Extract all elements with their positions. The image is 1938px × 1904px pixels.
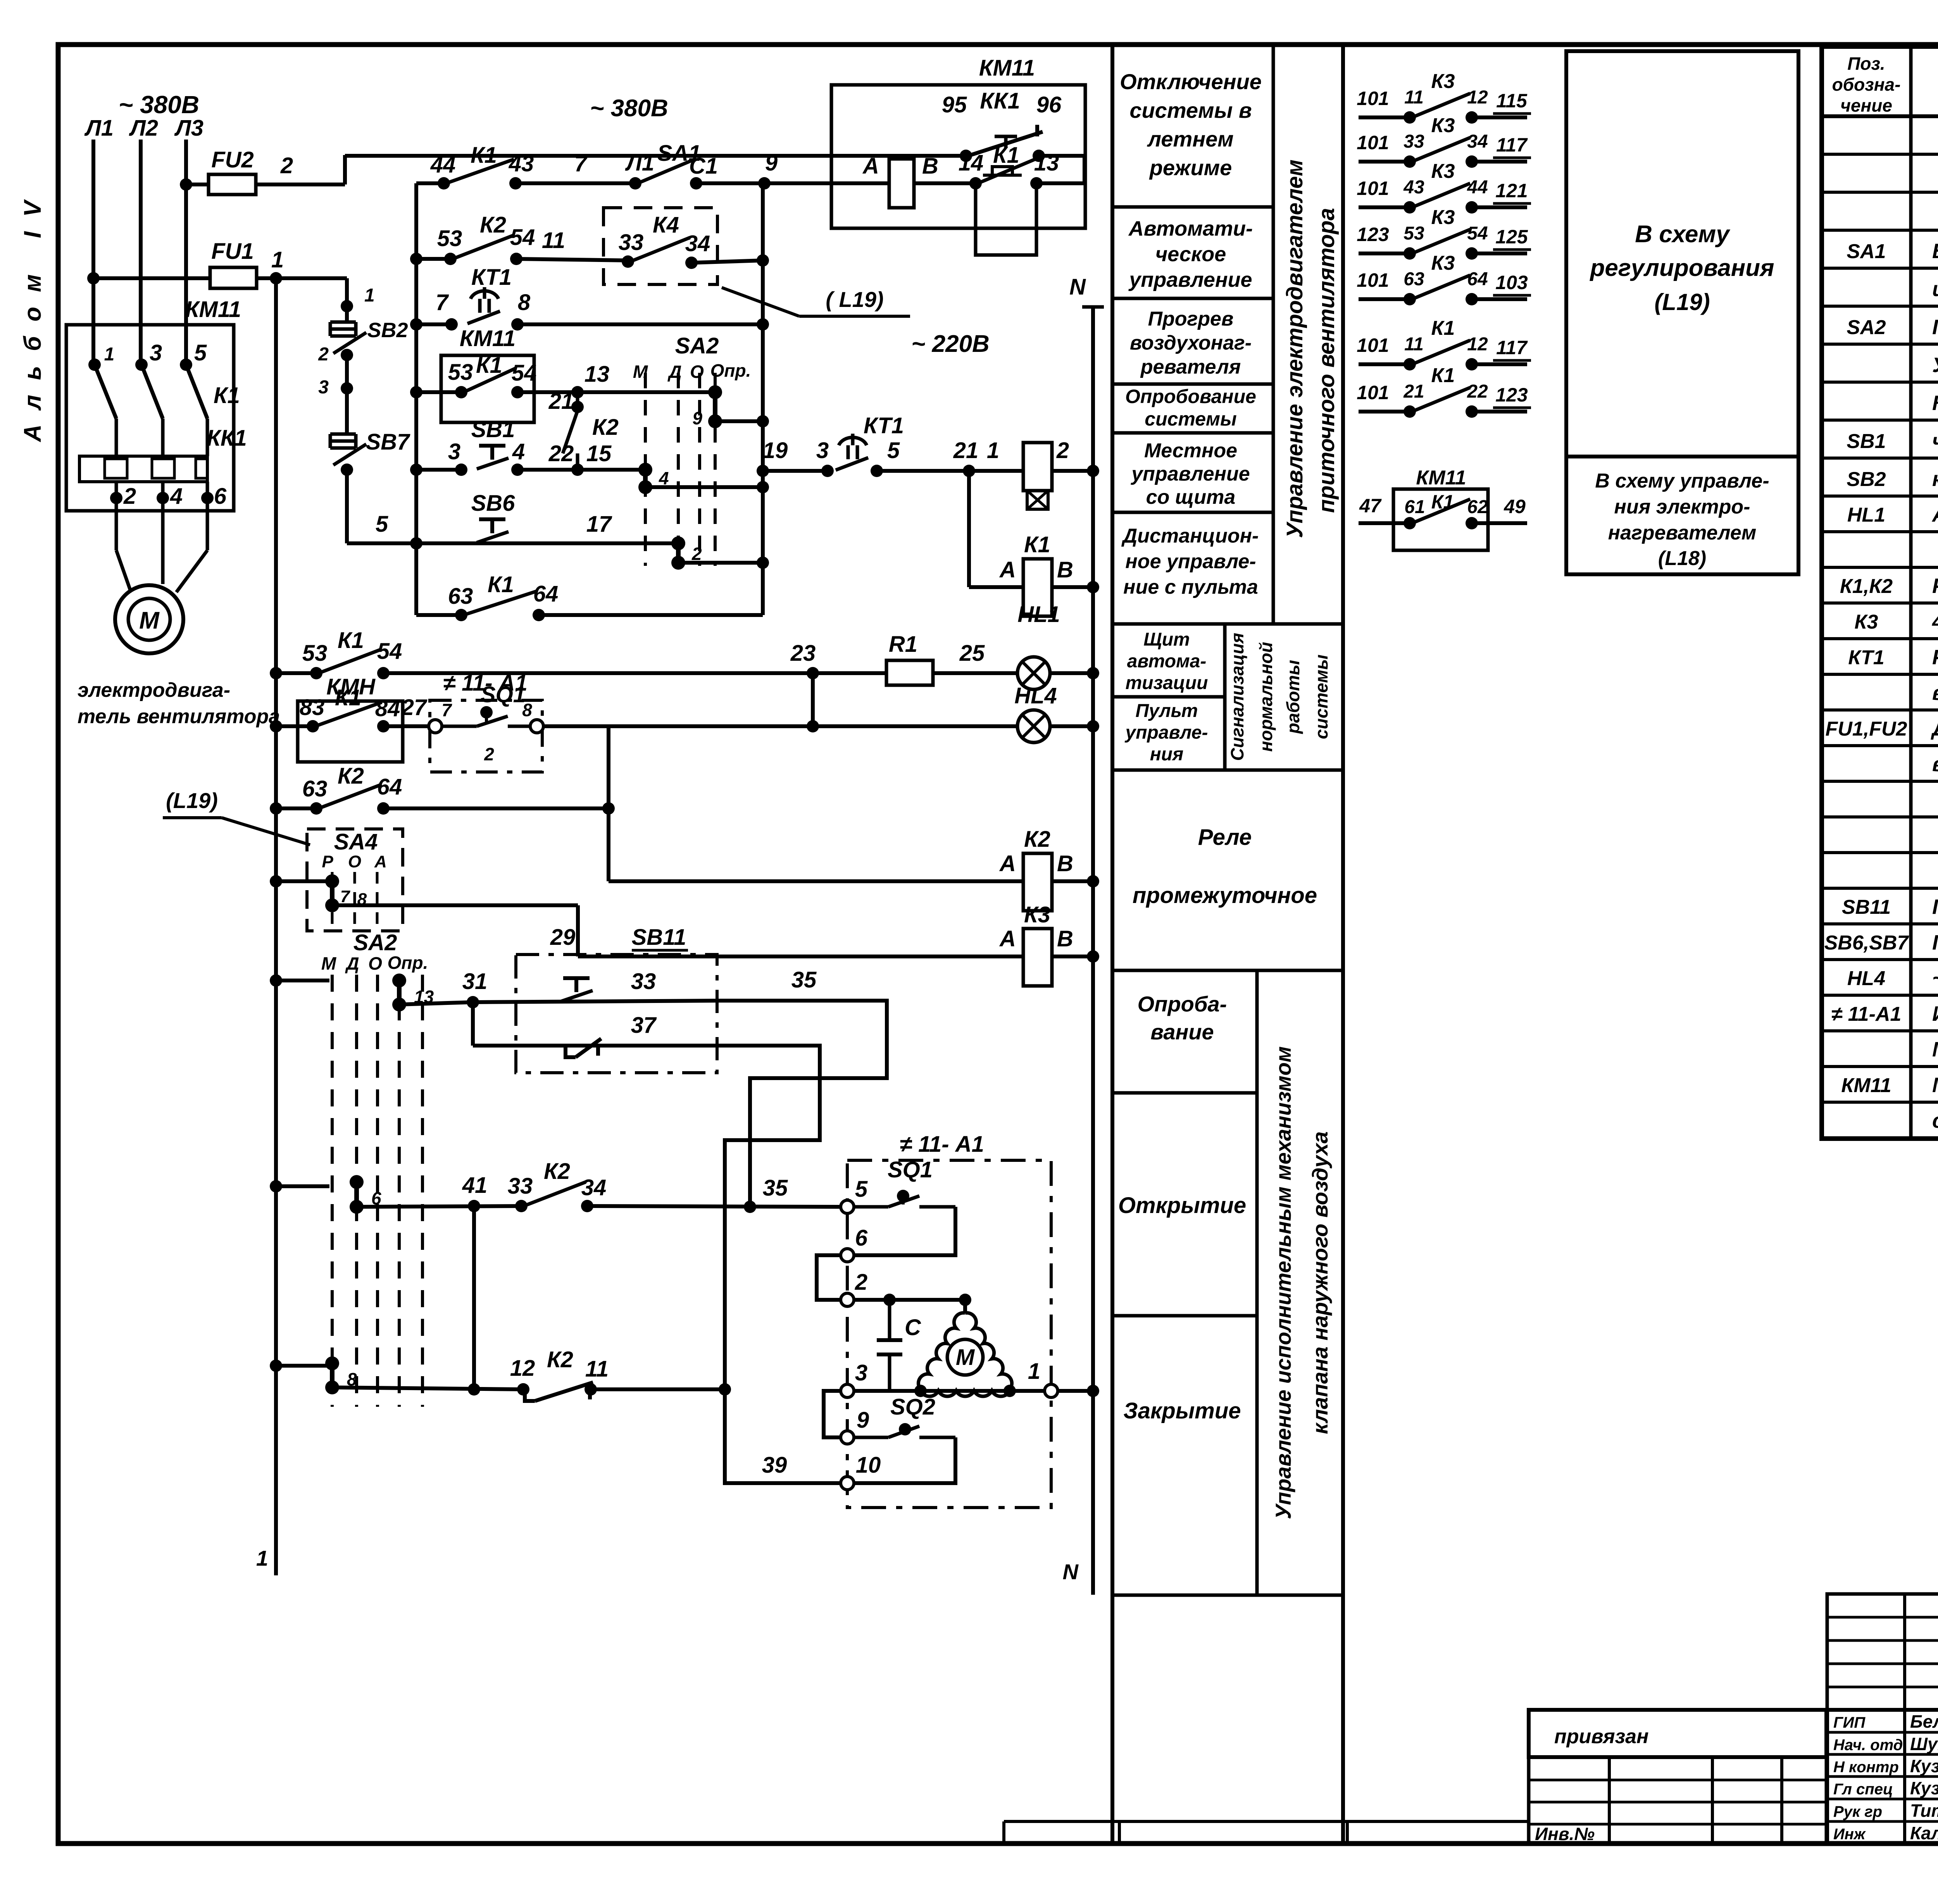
contact K2 33-34 low (515, 1200, 528, 1212)
svg-text:К2: К2 (338, 763, 364, 789)
stub bus-3522 (276, 1364, 329, 1368)
SQ1 pin (480, 706, 493, 719)
SQ2 contact (854, 1436, 888, 1439)
table row line 18 (1822, 815, 1938, 818)
svg-text:101: 101 (1357, 382, 1389, 403)
table row line 6 (1822, 381, 1938, 384)
svg-text:96: 96 (1036, 92, 1062, 117)
row HL1 lead (276, 671, 316, 675)
svg-text:Д: Д (345, 953, 359, 974)
node N 1735 (1087, 667, 1099, 679)
node 21 mid (963, 465, 975, 477)
thermal KK1 block (79, 456, 207, 482)
svg-text:управление: управление (1130, 463, 1250, 485)
svg-text:6: 6 (214, 484, 227, 509)
svg-text:SВ2: SВ2 (1847, 468, 1886, 491)
V1 node row663 (410, 253, 422, 265)
cell line 4116 (1112, 1594, 1343, 1597)
lamp HL4 (1017, 710, 1050, 743)
cell line 1117 (1112, 431, 1273, 435)
table row line 22 (1822, 958, 1938, 961)
node bus 2084 (270, 802, 282, 815)
svg-text:воздухонаг-: воздухонаг- (1130, 332, 1252, 354)
svg-text:управление: управление (1128, 268, 1252, 291)
wire K3coil-N (1052, 955, 1093, 958)
svg-text:О: О (348, 852, 361, 871)
svg-text:1: 1 (104, 344, 115, 365)
svg-text:вставка ВП25-1 на 2А: вставка ВП25-1 на 2А (1932, 753, 1938, 776)
row K2: lead (416, 257, 450, 261)
svg-text:33: 33 (1403, 131, 1424, 152)
svg-text:тизации: тизации (1126, 673, 1208, 693)
svg-text:В схему управле-: В схему управле- (1595, 470, 1769, 492)
svg-text:SВ11: SВ11 (1842, 896, 1891, 918)
bus V1 (414, 183, 418, 615)
wire 31-button (473, 1002, 561, 1003)
svg-text:С1: С1 (689, 153, 718, 179)
button SB6 (479, 517, 505, 521)
svg-text:43: 43 (509, 151, 534, 176)
svg-text:Управление исполнительным ме: Управление исполнительным механизмом (1271, 1046, 1295, 1519)
fuse FU1 (210, 267, 257, 288)
svg-text:К3: К3 (1431, 160, 1455, 183)
inv grid v1 (1608, 1757, 1611, 1844)
wire to K1coil (969, 585, 1023, 589)
cell line 3395 (1112, 1314, 1257, 1318)
node 23 (807, 667, 819, 679)
svg-text:КК1: КК1 (207, 426, 247, 451)
table row line 1 (1822, 191, 1938, 194)
row 5 wire (347, 541, 416, 545)
svg-text:10: 10 (856, 1453, 881, 1478)
motor leads (115, 482, 118, 550)
contact K3 11-12 row (1359, 115, 1410, 119)
svg-text:125: 125 (1495, 226, 1528, 248)
svg-text:54: 54 (512, 360, 537, 386)
svg-text:управле-: управле- (1125, 722, 1208, 743)
svg-text:HL4: HL4 (1014, 683, 1057, 708)
svg-text:21: 21 (548, 389, 574, 414)
svg-text:А: А (999, 926, 1016, 951)
route 39 (717, 1046, 841, 1483)
svg-text:53: 53 (1403, 223, 1424, 244)
svg-text:34: 34 (581, 1175, 607, 1200)
node N 1512 (1087, 581, 1099, 593)
svg-text:54: 54 (510, 225, 535, 250)
node bus 2272 (270, 875, 282, 887)
svg-text:режиме: режиме (1149, 155, 1232, 180)
row KT1coil from V2 (763, 469, 828, 473)
svg-text:35: 35 (791, 967, 817, 992)
svg-text:2: 2 (484, 744, 494, 764)
svg-text:5: 5 (887, 438, 900, 463)
motor top riser (959, 1294, 971, 1306)
svg-text:1: 1 (364, 285, 375, 306)
contact K2 12-11 nc (517, 1383, 529, 1396)
privyazan box (1529, 1710, 1826, 1757)
svg-text:клапана наружного воздуха: клапана наружного воздуха (1308, 1131, 1332, 1434)
svg-text:Калмыков: Калмыков (1910, 1823, 1938, 1843)
svg-text:В: В (922, 153, 938, 179)
row 2586 wire (473, 1001, 717, 1002)
svg-text:SQ1: SQ1 (888, 1157, 933, 1182)
svg-text:8: 8 (518, 290, 531, 315)
wire 34-V2 (691, 260, 763, 263)
table row line 7 (1822, 419, 1938, 422)
contact K3 43-44 row (1359, 205, 1410, 209)
wire KT1coil-N (1052, 469, 1093, 473)
svg-text:Сигнализация: Сигнализация (1227, 633, 1247, 761)
svg-text:системы: системы (1145, 408, 1236, 430)
V2 node 1085 (757, 415, 769, 427)
svg-text:15: 15 (586, 441, 612, 466)
SA2 contact pair D (671, 536, 685, 550)
svg-text:3: 3 (448, 439, 460, 464)
svg-text:SQ2: SQ2 (890, 1394, 935, 1420)
inv grid h1 (1529, 1779, 1826, 1782)
svg-text:37: 37 (631, 1013, 657, 1038)
V2 node 1255 (757, 481, 769, 493)
branch 21 down (967, 471, 971, 587)
function column right edge (1341, 45, 1345, 1844)
wire 3-SB7 (345, 388, 349, 434)
ext step 3-9 (824, 1391, 841, 1437)
terminal 7 sq1 (429, 720, 442, 733)
node N 1213 (1087, 465, 1099, 477)
button SB1 (479, 444, 505, 448)
node 1223-3583 (468, 1383, 480, 1396)
svg-text:В: В (1057, 926, 1073, 951)
svg-text:Инж: Инж (1833, 1826, 1866, 1843)
svg-text:К1: К1 (1431, 317, 1455, 339)
SQ1 contact (442, 725, 477, 728)
svg-text:101: 101 (1357, 334, 1389, 356)
svg-text:Выключатель пакетный ПВ1-16: Выключатель пакетный ПВ1-16 У300Б, (1932, 240, 1938, 263)
V1 node row1210 (410, 464, 422, 476)
terminal 10 (841, 1477, 854, 1490)
svg-text:31: 31 (462, 969, 488, 994)
svg-text:2: 2 (318, 344, 329, 365)
wire FU1 feed (93, 276, 276, 280)
wire L2 (139, 140, 143, 365)
pair D 6 (350, 1175, 364, 1189)
inv grid h3 (1529, 1823, 1826, 1826)
node 31 (467, 996, 479, 1008)
table row line 2 (1822, 229, 1938, 232)
terminal 5 (841, 1200, 854, 1213)
svg-text:со щита: со щита (1146, 486, 1236, 508)
svg-text:N: N (1069, 274, 1086, 300)
SQ1 pin act (897, 1190, 909, 1202)
SQ2 right loop (854, 1437, 955, 1483)
svg-text:~220В: ~220В (1932, 967, 1938, 990)
svg-text:5: 5 (194, 340, 207, 365)
table row line 8 (1822, 457, 1938, 460)
svg-text:64: 64 (377, 774, 402, 800)
table row line 27 (1822, 1136, 1938, 1139)
svg-text:Автомати-: Автомати- (1128, 217, 1253, 240)
V2 node 835 (757, 318, 769, 331)
svg-text:≠ 11-А1: ≠ 11-А1 (1831, 1003, 1902, 1025)
svg-text:ние с пульта: ние с пульта (1123, 576, 1258, 598)
svg-text:(L18): (L18) (1658, 547, 1706, 570)
upper grid line 1 (1827, 1616, 1938, 1619)
svg-text:123: 123 (1357, 224, 1389, 245)
contact K1 53-54 aux (455, 386, 467, 398)
svg-text:К2: К2 (547, 1347, 573, 1372)
svg-text:8: 8 (522, 700, 532, 720)
bus N vertical (1091, 306, 1095, 1595)
contact K1 11-12 row (1359, 362, 1410, 366)
svg-text:ческое: ческое (1155, 243, 1226, 266)
svg-text:SА1: SА1 (1847, 240, 1886, 263)
svg-text:Кузнецов: Кузнецов (1910, 1756, 1938, 1776)
table row line 19 (1822, 851, 1938, 854)
upper grid line 4 (1827, 1686, 1938, 1689)
contact K2 53-54 (444, 253, 457, 265)
svg-text:КК1: КК1 (980, 88, 1020, 114)
stub D-V2 (678, 561, 763, 565)
sig col box (1827, 1710, 1938, 1844)
box KM11 62 (1393, 489, 1488, 550)
svg-text:5: 5 (855, 1177, 868, 1202)
row 2084 lead (276, 806, 316, 810)
svg-text:нормальной: нормальной (1256, 642, 1276, 751)
KK1 break contact 95-96 (960, 150, 972, 162)
svg-text:33: 33 (619, 230, 644, 255)
svg-text:М: М (139, 607, 160, 634)
KM11 pole 2 (141, 365, 163, 419)
svg-text:R1: R1 (889, 632, 917, 657)
sig row line 2 (1827, 1753, 1938, 1756)
SQ1 right loop (854, 1207, 955, 1255)
svg-text:SВ1: SВ1 (471, 417, 515, 442)
row SB1 lead (416, 468, 461, 472)
V2 node 1213 (757, 465, 769, 477)
upper grid line 3 (1827, 1663, 1938, 1665)
svg-text:1: 1 (987, 438, 999, 463)
wire L1 (91, 140, 95, 365)
svg-text:ГИП: ГИП (1833, 1714, 1866, 1731)
contact K1 21-22 row (1359, 410, 1410, 414)
svg-text:КМ11: КМ11 (1416, 467, 1466, 489)
cell line 770 (1112, 297, 1273, 300)
motor M inner (128, 598, 170, 640)
node 9 (758, 177, 771, 190)
svg-text:64: 64 (533, 581, 559, 607)
table row line 21 (1822, 922, 1938, 925)
bus 1 vertical (274, 278, 278, 1575)
contact K1 63-64 (455, 609, 467, 621)
svg-text:7: 7 (574, 151, 588, 176)
cell line 991 (1112, 383, 1273, 386)
svg-text:35: 35 (763, 1175, 788, 1201)
svg-text:54: 54 (377, 639, 402, 664)
branch to SB2 (276, 276, 347, 280)
SA4 dashed P (331, 872, 334, 927)
V1 node row1010 (410, 386, 422, 398)
svg-text:≠ 11- А1: ≠ 11- А1 (900, 1132, 984, 1157)
row 2698 wire (473, 1044, 717, 1048)
svg-text:1: 1 (271, 247, 284, 272)
svg-text:Нач. отд: Нач. отд (1833, 1737, 1903, 1754)
node below SB7 (341, 464, 353, 476)
table row line 14 (1822, 673, 1938, 676)
svg-text:SВ6,SВ7: SВ6,SВ7 (1824, 932, 1909, 954)
svg-text:7: 7 (340, 887, 351, 906)
V2 node 1450 (757, 557, 769, 569)
svg-text:летнем: летнем (1147, 127, 1233, 151)
svg-text:Переключатель универсальный: Переключатель универсальный (1932, 315, 1938, 339)
wire 54-23 (383, 671, 886, 675)
svg-text:54: 54 (1467, 223, 1488, 244)
SB11 button (563, 976, 590, 980)
svg-text:53: 53 (302, 641, 328, 666)
svg-text:83: 83 (300, 695, 325, 720)
self-hold loop (976, 183, 1036, 255)
wire K2coil-N (1052, 879, 1093, 883)
svg-text:ное управле-: ное управле- (1125, 550, 1256, 573)
svg-text:К1: К1 (335, 685, 361, 710)
svg-text:Пульт: Пульт (1135, 701, 1198, 721)
node 35 (744, 1201, 756, 1213)
wire 11-right (591, 1387, 725, 1391)
SA4 dashed O (353, 872, 356, 927)
svg-text:К1: К1 (214, 383, 240, 408)
svg-text:К1: К1 (1431, 491, 1454, 513)
svg-text:11: 11 (542, 228, 565, 253)
stub bus-SA4 (276, 879, 332, 883)
svg-text:исполнение Ш: исполнение Ш (1932, 277, 1938, 301)
capacitor C plates (877, 1338, 902, 1342)
table row line 16 (1822, 744, 1938, 747)
svg-text:В: В (1057, 557, 1073, 582)
svg-text:работы: работы (1283, 660, 1303, 734)
node bus 3059 (270, 1180, 282, 1192)
fuse FU2 (209, 174, 256, 195)
V1 node row1400 (410, 537, 422, 550)
contact KT1 7-8 (445, 318, 458, 331)
branch 1570 down (607, 726, 610, 881)
terminal 6 (841, 1249, 854, 1262)
box K4 dashed (603, 208, 717, 284)
node 41 (468, 1200, 480, 1212)
branch 23-HL4 (811, 673, 815, 726)
svg-text:12: 12 (510, 1356, 535, 1381)
latch mark (995, 135, 1017, 138)
svg-text:SA2: SA2 (675, 333, 719, 358)
svg-text:SВ6: SВ6 (471, 491, 516, 516)
svg-text:К2: К2 (544, 1159, 570, 1184)
contact K3 63-64 row (1359, 297, 1410, 301)
contact K3 53-54 row (1359, 252, 1410, 255)
svg-text:2: 2 (123, 484, 136, 509)
svg-text:К3: К3 (1431, 206, 1455, 229)
sig row line 1 (1827, 1731, 1938, 1734)
motor M outer (115, 585, 183, 653)
svg-text:~ 220В: ~ 220В (911, 331, 990, 357)
svg-text:МЭО-16/63- 0,25, ~220В: МЭО-16/63- 0,25, ~220В (1932, 1038, 1938, 1061)
wire FU2 feed (186, 183, 345, 186)
svg-text:117: 117 (1496, 337, 1528, 358)
wire L3 (184, 140, 188, 365)
svg-text:Гл спец: Гл спец (1833, 1781, 1893, 1798)
node 3 kt1 (821, 465, 834, 477)
svg-text:101: 101 (1357, 88, 1389, 109)
wire 84-27 (383, 724, 435, 728)
svg-text:6: 6 (855, 1225, 868, 1251)
svg-text:2: 2 (855, 1270, 867, 1295)
svg-text:4: 4 (170, 484, 183, 509)
svg-text:Л1: Л1 (84, 115, 114, 141)
SA4 pair P (325, 874, 339, 888)
wire 2-3 (345, 355, 349, 388)
svg-text:Реле промежуточное ПЭ-37-42У: Реле промежуточное ПЭ-37-42У3, ~220В, (1932, 574, 1938, 598)
svg-text:К3: К3 (1431, 114, 1455, 137)
table row line 0 (1822, 153, 1938, 156)
table header line (1822, 114, 1938, 118)
row SB6 wire (416, 541, 678, 545)
node bus 1872 (270, 720, 282, 732)
svg-text:КТ1: КТ1 (864, 413, 904, 438)
svg-text:115: 115 (1496, 90, 1528, 112)
svg-text:К4: К4 (653, 212, 679, 238)
svg-text:Кнопка КЕ011У3:: Кнопка КЕ011У3: (1932, 391, 1938, 415)
wire HL4-N (1050, 724, 1093, 728)
svg-text:53: 53 (448, 360, 473, 385)
node 39-3583 (719, 1383, 731, 1396)
node 21 (571, 401, 584, 413)
terminal 9 (841, 1431, 854, 1444)
svg-text:В схему: В схему (1635, 221, 1731, 248)
contact K2 21-22 vertical (576, 392, 579, 411)
SQ1 contact act (854, 1205, 888, 1209)
svg-text:Опроба-: Опроба- (1138, 992, 1227, 1016)
node 13 (571, 386, 584, 398)
node 1 above SB2 (341, 300, 353, 312)
svg-text:3: 3 (318, 377, 329, 398)
svg-text:Альбом IV: Альбом IV (19, 186, 46, 443)
contact K4 33-34 (622, 255, 634, 268)
terminal 2 (841, 1293, 854, 1306)
top bus ~380V segment A (345, 154, 966, 158)
node 3 sb1 (455, 464, 467, 476)
wire R1-HL1 (933, 671, 1017, 675)
relay coil KT1 (1023, 443, 1052, 491)
svg-text:FU1,FU2: FU1,FU2 (1826, 718, 1907, 740)
row 63K1 lead (416, 613, 461, 617)
svg-text:системы: системы (1311, 655, 1331, 739)
box v skhemu nagrev (1566, 457, 1798, 574)
cell line 2504 (1112, 969, 1343, 972)
node bus 2528 (270, 974, 282, 987)
svg-text:1: 1 (1028, 1359, 1040, 1384)
box 11-A1 upper dashed (430, 700, 542, 772)
svg-text:Щит: Щит (1143, 629, 1190, 650)
node winding BR (1003, 1385, 1016, 1397)
table row line 26 (1822, 1101, 1938, 1104)
relay coil K1 (KM11 branch) (889, 159, 914, 208)
route 35 (717, 1001, 887, 1207)
svg-text:Магнитный пускатель типа П: Магнитный пускатель типа ПМЛ (1932, 1073, 1938, 1097)
svg-text:К1: К1 (476, 353, 502, 378)
stub M-V2 (645, 485, 763, 489)
svg-text:FU1: FU1 (211, 239, 254, 264)
svg-text:Опр.: Опр. (710, 360, 751, 381)
svg-text:Пост управления ПКУ15-21.331: Пост управления ПКУ15-21.331-54У2 , (1932, 931, 1938, 954)
svg-text:тель вентилятора: тель вентилятора (78, 705, 280, 728)
svg-text:Р: Р (322, 852, 333, 871)
